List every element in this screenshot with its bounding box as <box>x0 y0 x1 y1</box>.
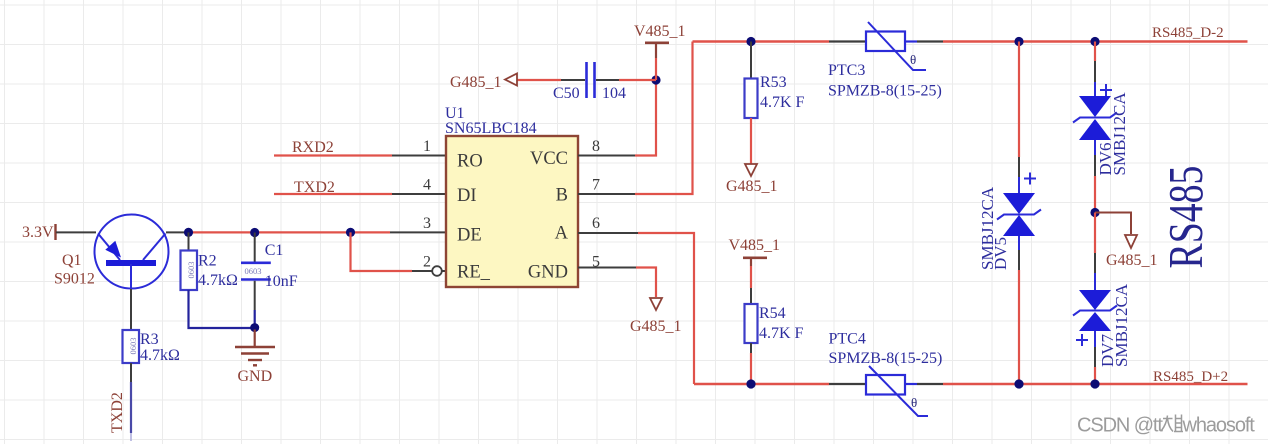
node G485_1 left arrow port <box>450 74 517 92</box>
wire C50 right lead <box>596 79 656 81</box>
svg-text:TXD2: TXD2 <box>109 392 126 433</box>
wire R54 top lead <box>750 288 752 304</box>
svg-text:θ: θ <box>911 395 917 410</box>
node G485_1 down arrow at DV7 <box>1106 235 1158 269</box>
wire pin 6 A <box>578 233 694 384</box>
svg-text:4.7K F: 4.7K F <box>760 94 805 111</box>
svg-text:B: B <box>556 186 568 206</box>
wire Q1 collector to junction <box>166 231 188 233</box>
wire R54 bottom lead <box>750 343 752 384</box>
watermark CSDN <box>1077 415 1255 437</box>
svg-text:CSDN @tt: CSDN @tt <box>1077 415 1163 437</box>
node junction R53/top rail <box>746 37 755 46</box>
resistor R54 4.7K <box>745 304 804 343</box>
svg-text:PTC4: PTC4 <box>829 331 866 348</box>
svg-text:4.7K F: 4.7K F <box>759 325 804 342</box>
wire DE black stub to pin 3 <box>390 231 446 233</box>
wire Q1 base to R3 <box>130 289 132 330</box>
transistor DV7 SMBJ12CA tvs <box>1073 283 1131 367</box>
svg-text:SN65LBC184: SN65LBC184 <box>445 120 537 137</box>
wire DV7 top lead <box>1094 213 1096 291</box>
svg-text:SMBJ12CA: SMBJ12CA <box>1110 92 1129 176</box>
svg-text:4.7kΩ: 4.7kΩ <box>198 272 238 289</box>
capacitor C1 10nF <box>241 242 298 290</box>
svg-text:8: 8 <box>592 138 600 155</box>
wire TXD2 to pin 4 <box>274 193 446 195</box>
node junction C1/DE rail <box>250 228 259 237</box>
node junction DV5/top rail <box>1014 37 1023 46</box>
svg-text:C1: C1 <box>265 242 284 259</box>
ground GND symbol <box>235 330 275 386</box>
wire pin 5 GND <box>578 268 656 298</box>
svg-text:4: 4 <box>423 177 431 194</box>
wire RE_ branch <box>351 232 447 271</box>
node junction RE branch <box>346 228 355 237</box>
svg-text:RS485_D-2: RS485_D-2 <box>1152 25 1224 41</box>
transistor DV6 SMBJ12CA tvs <box>1073 84 1129 176</box>
svg-text:θ: θ <box>910 52 916 67</box>
svg-text:R53: R53 <box>760 74 787 91</box>
svg-text:1: 1 <box>423 138 431 155</box>
svg-text:RE_: RE_ <box>457 263 491 283</box>
wire R3 bottom lead <box>130 363 132 441</box>
node junction DV6/DV7 <box>1090 208 1099 217</box>
svg-text:G485_1: G485_1 <box>1106 252 1158 269</box>
wire R2 top lead <box>188 232 190 250</box>
wire C1 top lead <box>254 233 256 262</box>
node 3.3V power port <box>22 224 56 241</box>
svg-text:0603: 0603 <box>128 338 138 355</box>
node junction DV7/bottom rail <box>1090 379 1099 388</box>
svg-text:7: 7 <box>592 177 600 194</box>
svg-text:SPMZB-8(15-25): SPMZB-8(15-25) <box>828 83 942 100</box>
svg-text:10nF: 10nF <box>265 273 298 290</box>
wire R53 bottom lead <box>750 118 752 164</box>
node junction collector/R2 <box>184 228 193 237</box>
node junction R54/bottom rail <box>746 379 755 388</box>
svg-text:RXD2: RXD2 <box>292 139 334 156</box>
node G485_1 down arrow at pin 5 <box>630 298 682 335</box>
svg-text:V485_1: V485_1 <box>729 237 781 254</box>
node junction DV6/top rail <box>1090 37 1099 46</box>
wire pin 7 B <box>578 42 693 195</box>
wire DV5 top lead <box>1018 42 1020 194</box>
op-amp U1 SN65LBC184 chip body <box>445 105 578 287</box>
svg-text:3: 3 <box>423 215 431 232</box>
wire RXD2 to pin 1 <box>274 154 446 156</box>
svg-text:DV5: DV5 <box>991 237 1010 270</box>
svg-text:G485_1: G485_1 <box>450 74 502 91</box>
power V485_1 top <box>634 23 686 80</box>
svg-text:G485_1: G485_1 <box>630 318 682 335</box>
svg-text:R54: R54 <box>759 305 786 322</box>
wire C50 left lead <box>517 79 585 81</box>
wire R2 bottom lead navy <box>189 290 255 328</box>
wire 3.3V to Q1 emitter <box>56 231 96 233</box>
svg-text:104: 104 <box>602 85 626 102</box>
svg-text:GND: GND <box>238 368 273 385</box>
wire DV7 bottom lead <box>1094 331 1096 384</box>
resistor R53 4.7K <box>745 74 805 118</box>
svg-text:DE: DE <box>457 226 482 246</box>
svg-text:0603: 0603 <box>186 262 196 279</box>
pin 2 inversion bubble <box>432 266 442 276</box>
svg-text:RS485: RS485 <box>1160 166 1214 269</box>
svg-text:PTC3: PTC3 <box>828 62 865 79</box>
capacitor C50 104 <box>553 62 626 102</box>
svg-text:SMBJ12CA: SMBJ12CA <box>1112 283 1131 367</box>
svg-text:Q1: Q1 <box>62 252 82 269</box>
resistor R3 4.7k <box>123 330 181 364</box>
svg-text:RS485_D+2: RS485_D+2 <box>1153 369 1228 385</box>
svg-text:0603: 0603 <box>245 266 262 276</box>
wire C1 bottom lead <box>254 281 256 328</box>
wire G485 branch <box>1095 213 1131 235</box>
resistor R2 4.7k <box>181 251 239 291</box>
wire DE rail red <box>188 231 390 233</box>
svg-text:VCC: VCC <box>530 149 568 169</box>
svg-text:GND: GND <box>528 263 568 283</box>
svg-text:S9012: S9012 <box>54 271 95 288</box>
transistor DV5 SMBJ12CA tvs <box>978 173 1041 271</box>
wire DV5 bottom lead <box>1018 236 1020 384</box>
wire pin 8 VCC <box>578 80 656 156</box>
wire top rail RS485_D-2 <box>693 40 1248 42</box>
svg-text:R3: R3 <box>140 331 159 348</box>
wire R53 top lead <box>750 42 752 79</box>
svg-text:R2: R2 <box>198 253 217 270</box>
svg-text:2: 2 <box>423 254 431 271</box>
node junction V485/C50 <box>651 75 660 84</box>
svg-text:SPMZB-8(15-25): SPMZB-8(15-25) <box>829 350 943 367</box>
wire bottom rail RS485_D+2 <box>694 383 1248 385</box>
wire DV6 top lead <box>1094 42 1096 97</box>
node G485_1 down arrow at R53 <box>726 164 778 195</box>
svg-text:V485_1: V485_1 <box>634 23 686 40</box>
svg-text:DI: DI <box>457 186 477 206</box>
transistor Q1 S9012 <box>54 215 169 290</box>
svg-text:A: A <box>555 224 569 244</box>
thermistor PTC3 SPMZB-8(15-25) <box>828 22 942 100</box>
node junction DV5/bottom rail <box>1014 379 1023 388</box>
svg-text:4.7kΩ: 4.7kΩ <box>140 347 180 364</box>
svg-text:G485_1: G485_1 <box>726 178 778 195</box>
svg-text:6: 6 <box>592 215 600 232</box>
power V485_1 bottom <box>729 237 781 288</box>
svg-text:3.3V: 3.3V <box>22 224 54 241</box>
svg-text:RO: RO <box>457 152 483 172</box>
svg-text:whaosoft: whaosoft <box>1182 415 1256 437</box>
svg-text:C50: C50 <box>553 85 580 102</box>
wire DV6 bottom lead <box>1094 140 1096 213</box>
node junction R2/C1/GND <box>250 323 259 332</box>
thermistor PTC4 SPMZB-8(15-25) <box>829 331 943 417</box>
